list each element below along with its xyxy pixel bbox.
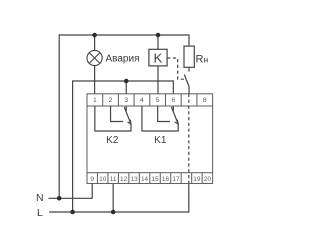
- svg-text:K1: K1: [154, 135, 167, 146]
- svg-text:K2: K2: [106, 135, 119, 146]
- svg-text:6: 6: [171, 97, 175, 104]
- svg-text:N: N: [36, 192, 44, 204]
- svg-text:5: 5: [156, 97, 160, 104]
- svg-text:Авария: Авария: [106, 53, 140, 64]
- svg-text:L: L: [37, 207, 43, 219]
- svg-text:9: 9: [90, 176, 94, 183]
- svg-text:13: 13: [130, 176, 138, 183]
- svg-text:1: 1: [93, 97, 97, 104]
- svg-text:3: 3: [124, 97, 128, 104]
- svg-text:17: 17: [172, 176, 180, 183]
- svg-text:Rн: Rн: [196, 53, 209, 65]
- svg-text:10: 10: [99, 176, 107, 183]
- svg-text:19: 19: [193, 176, 201, 183]
- svg-text:20: 20: [204, 176, 212, 183]
- svg-text:K: K: [154, 50, 163, 65]
- svg-text:11: 11: [110, 176, 117, 183]
- svg-text:4: 4: [140, 97, 144, 104]
- svg-text:14: 14: [141, 176, 149, 183]
- svg-text:12: 12: [120, 176, 128, 183]
- svg-text:16: 16: [162, 176, 170, 183]
- svg-text:15: 15: [151, 176, 159, 183]
- svg-text:8: 8: [203, 97, 207, 104]
- svg-text:2: 2: [109, 97, 113, 104]
